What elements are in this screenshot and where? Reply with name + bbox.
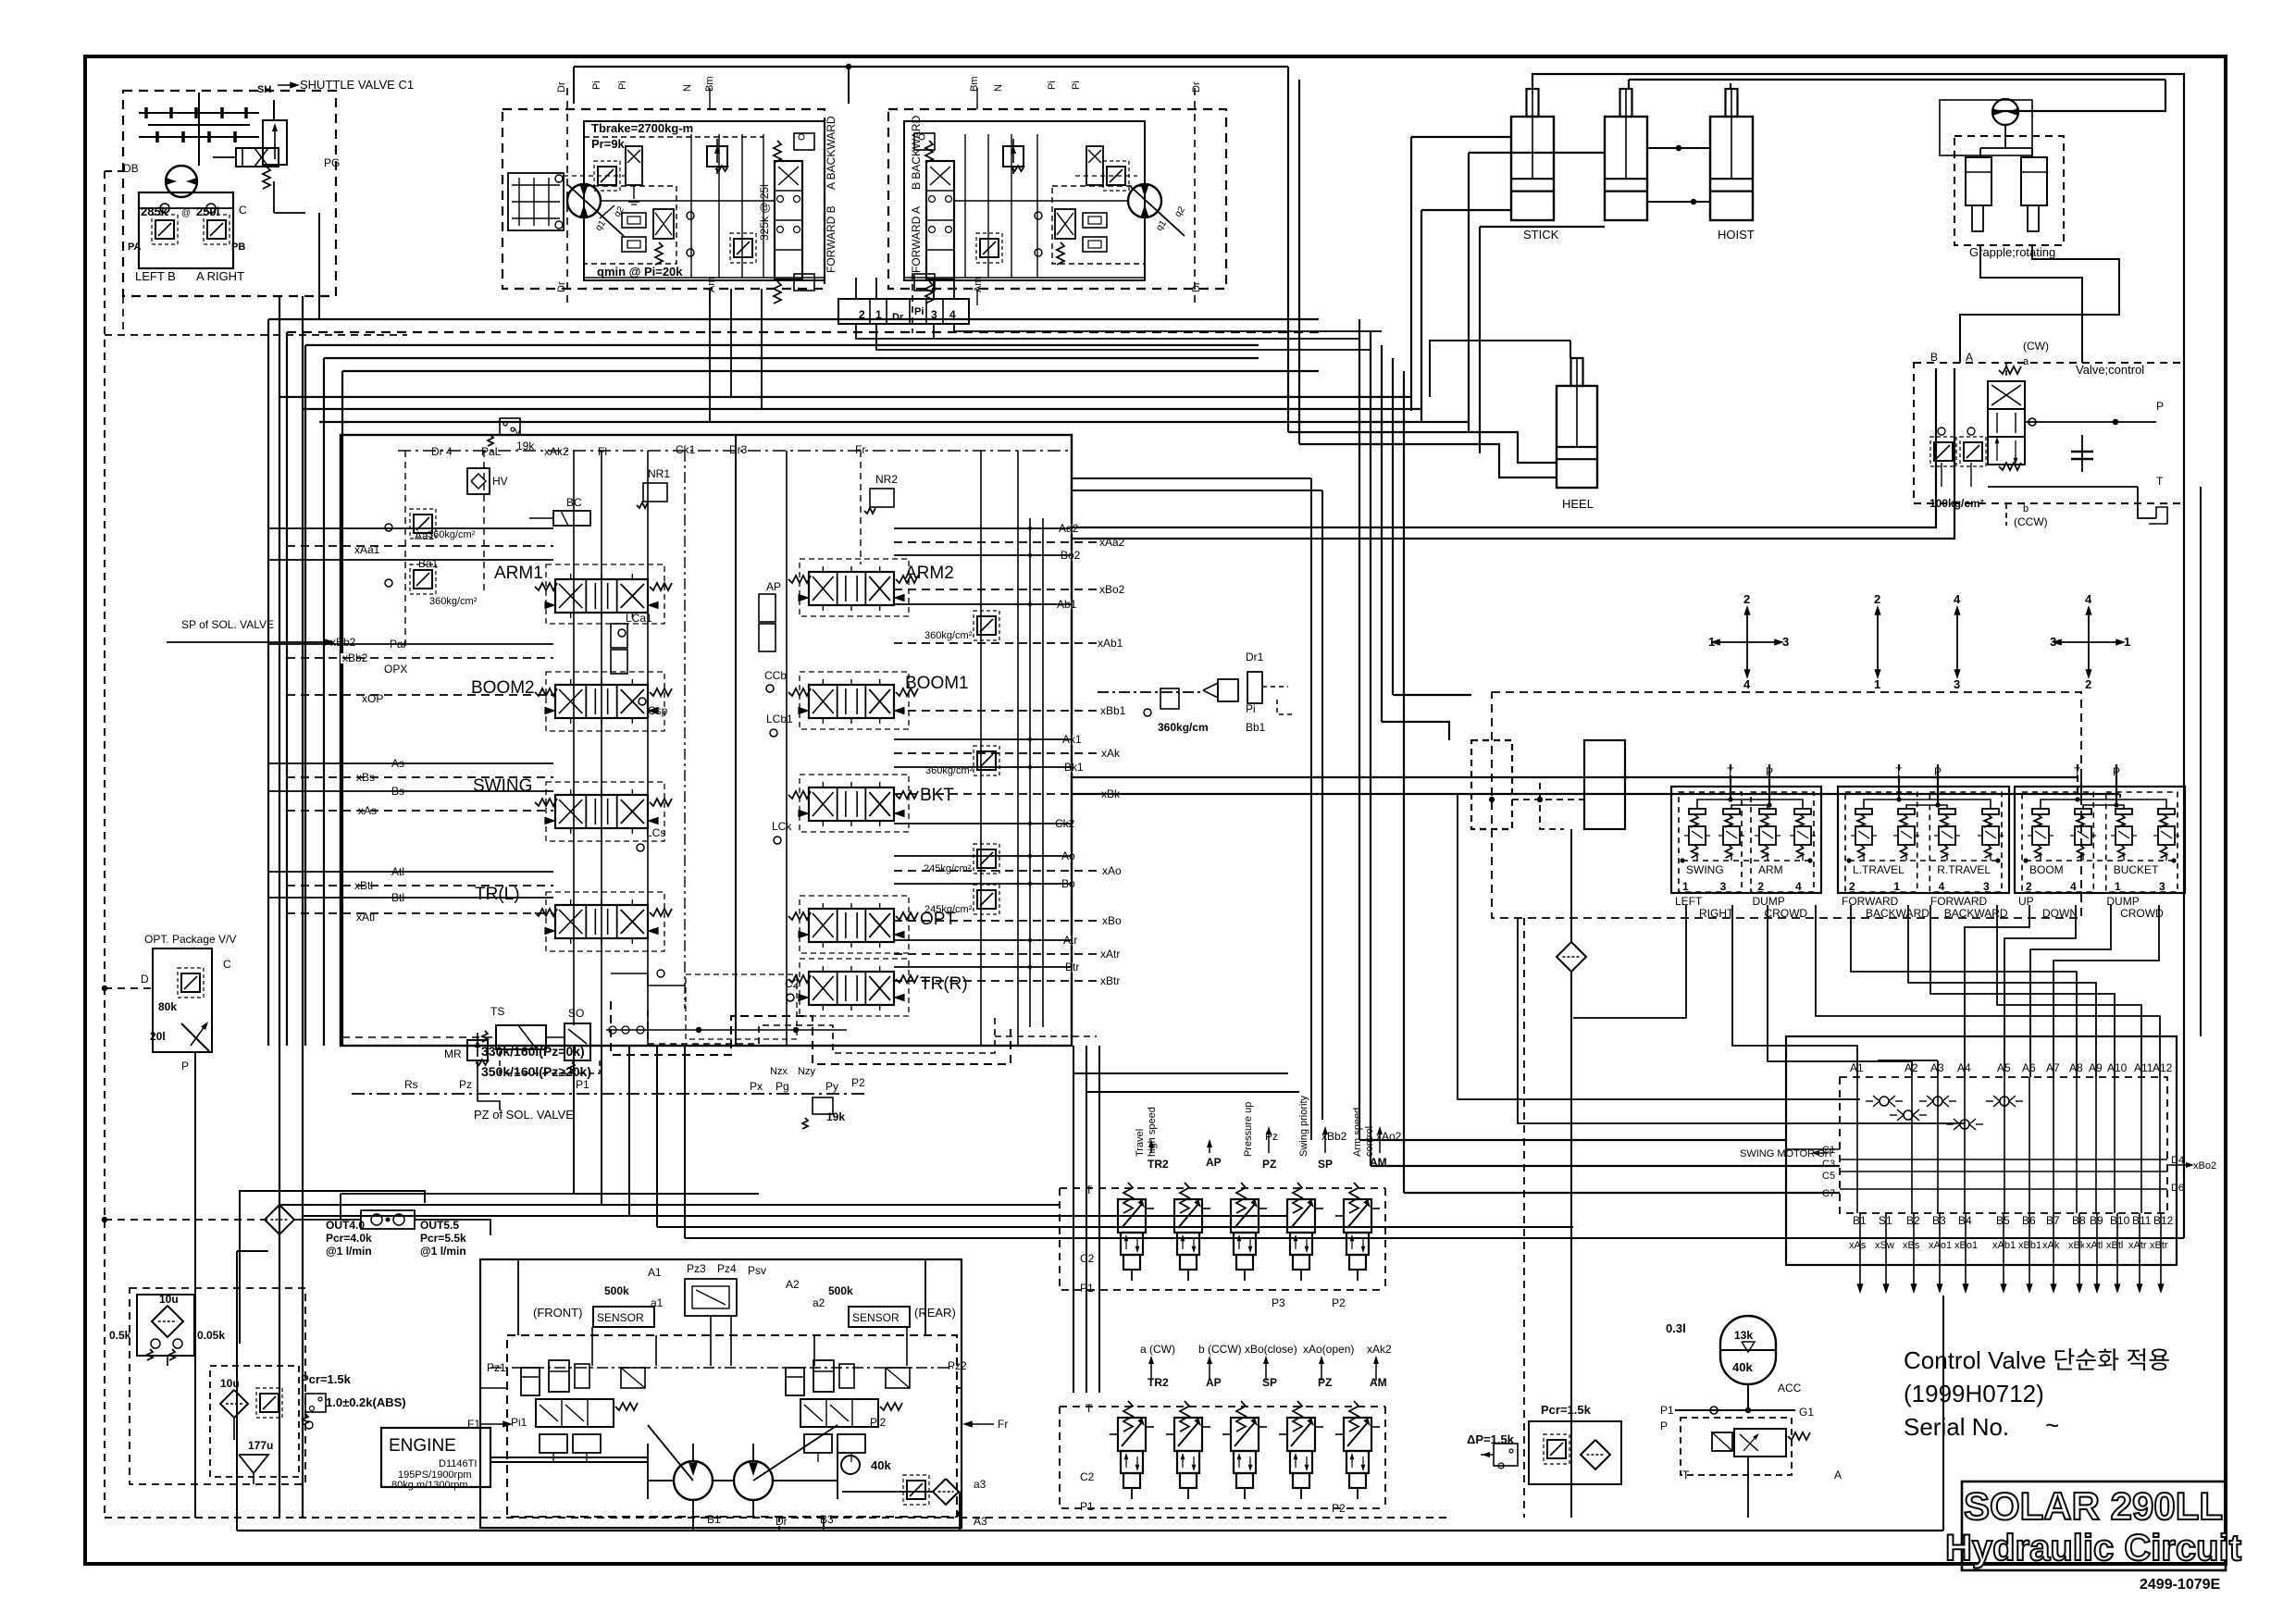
- svg-text:@: @: [181, 208, 191, 218]
- svg-text:500k: 500k: [604, 1284, 629, 1297]
- svg-text:b: b: [2023, 503, 2029, 514]
- svg-text:Pz2: Pz2: [948, 1359, 967, 1372]
- svg-text:(1999H0712): (1999H0712): [1904, 1380, 2044, 1407]
- svg-text:40k: 40k: [871, 1458, 891, 1472]
- svg-text:1: 1: [2124, 635, 2130, 649]
- svg-text:Am: Am: [973, 278, 984, 293]
- svg-text:b (CCW): b (CCW): [1198, 1343, 1242, 1356]
- svg-text:a: a: [2023, 356, 2029, 367]
- svg-text:4: 4: [1795, 880, 1802, 893]
- svg-text:TR(L): TR(L): [475, 885, 520, 904]
- svg-text:A2: A2: [1905, 1061, 1918, 1074]
- svg-text:Pcr=5.5k: Pcr=5.5k: [420, 1232, 466, 1245]
- svg-text:FORWARD B: FORWARD B: [825, 205, 838, 273]
- svg-text:R.TRAVEL: R.TRAVEL: [1937, 863, 1991, 876]
- svg-text:DOWN: DOWN: [2042, 907, 2078, 920]
- svg-text:xAk: xAk: [2042, 1240, 2060, 1251]
- svg-text:SP of SOL. VALVE: SP of SOL. VALVE: [181, 618, 274, 631]
- svg-text:Pi: Pi: [914, 306, 924, 317]
- svg-text:1: 1: [2115, 880, 2121, 893]
- svg-text:SENSOR: SENSOR: [597, 1311, 644, 1324]
- svg-text:325k @ 25l: 325k @ 25l: [758, 184, 771, 241]
- svg-text:3: 3: [1782, 635, 1789, 649]
- svg-text:Tbrake=2700kg-m: Tbrake=2700kg-m: [591, 121, 693, 135]
- svg-text:40k: 40k: [1732, 1360, 1753, 1374]
- svg-text:HOIST: HOIST: [1718, 228, 1755, 242]
- svg-text:360kg/cm²: 360kg/cm²: [429, 596, 478, 607]
- svg-text:(REAR): (REAR): [914, 1306, 956, 1320]
- svg-text:control: control: [1364, 1126, 1375, 1157]
- svg-text:(CCW): (CCW): [2014, 515, 2048, 528]
- svg-text:C3: C3: [1822, 1159, 1835, 1170]
- svg-text:xBtl: xBtl: [2106, 1240, 2123, 1251]
- svg-text:xAb1: xAb1: [1098, 637, 1123, 650]
- svg-text:Grapple;rotating: Grapple;rotating: [1969, 245, 2055, 259]
- svg-text:A9: A9: [2089, 1061, 2103, 1074]
- svg-text:AM: AM: [1370, 1156, 1387, 1169]
- svg-text:xAo(open): xAo(open): [1303, 1343, 1354, 1356]
- svg-text:3: 3: [2159, 880, 2165, 893]
- svg-text:3: 3: [2050, 635, 2056, 649]
- svg-text:P: P: [1660, 1419, 1668, 1432]
- svg-text:Hydraulic Circuit: Hydraulic Circuit: [1945, 1528, 2241, 1568]
- svg-text:P1: P1: [576, 1078, 589, 1091]
- svg-text:RIGHT: RIGHT: [1699, 907, 1734, 920]
- svg-text:N: N: [993, 84, 1004, 92]
- svg-text:100kg/cm²: 100kg/cm²: [1929, 497, 1984, 510]
- svg-text:T: T: [2156, 475, 2164, 488]
- svg-text:CROWD: CROWD: [2120, 907, 2164, 920]
- svg-text:360kg/cm: 360kg/cm: [1158, 721, 1209, 734]
- svg-text:BKT: BKT: [920, 786, 954, 805]
- svg-text:Py: Py: [825, 1080, 838, 1093]
- svg-text:PZ: PZ: [1318, 1376, 1332, 1389]
- svg-text:xBtr: xBtr: [2150, 1240, 2168, 1251]
- svg-text:3: 3: [1720, 880, 1727, 893]
- svg-text:Nzy: Nzy: [798, 1066, 815, 1077]
- svg-text:STICK: STICK: [1523, 228, 1559, 242]
- svg-text:xAtr: xAtr: [2128, 1240, 2147, 1251]
- svg-text:BACKWARD: BACKWARD: [1866, 907, 1929, 920]
- svg-text:FORWARD: FORWARD: [1930, 895, 1988, 908]
- svg-text:LEFT B: LEFT B: [135, 269, 176, 283]
- svg-text:2: 2: [1743, 592, 1750, 606]
- svg-text:TR2: TR2: [1148, 1158, 1169, 1171]
- svg-text:C: C: [223, 958, 231, 971]
- svg-text:OUT4.0: OUT4.0: [326, 1219, 365, 1232]
- svg-text:Dr: Dr: [1191, 81, 1202, 93]
- svg-text:1: 1: [1893, 880, 1900, 893]
- svg-text:SH: SH: [257, 84, 271, 95]
- svg-text:xAs: xAs: [1849, 1240, 1867, 1251]
- svg-text:T: T: [1086, 1402, 1093, 1415]
- svg-text:Dr: Dr: [892, 312, 904, 323]
- svg-text:BOOM: BOOM: [2029, 863, 2064, 876]
- svg-text:P1: P1: [1080, 1500, 1094, 1513]
- svg-text:L.TRAVEL: L.TRAVEL: [1853, 863, 1905, 876]
- svg-text:1: 1: [1682, 880, 1689, 893]
- svg-text:xAo: xAo: [1102, 864, 1122, 877]
- svg-text:80kg.m/1300rpm: 80kg.m/1300rpm: [391, 1480, 468, 1491]
- svg-text:A10: A10: [2107, 1061, 2128, 1074]
- svg-text:Pi: Pi: [1246, 702, 1256, 715]
- svg-text:xAtl: xAtl: [2086, 1240, 2103, 1251]
- svg-text:PB: PB: [231, 242, 245, 253]
- svg-text:4: 4: [1939, 880, 1945, 893]
- svg-text:C1: C1: [1822, 1145, 1835, 1156]
- svg-text:MR: MR: [444, 1048, 462, 1060]
- svg-text:AM: AM: [1370, 1376, 1387, 1389]
- svg-text:A2: A2: [786, 1278, 800, 1291]
- svg-text:A12: A12: [2153, 1061, 2173, 1074]
- svg-text:A8: A8: [2069, 1061, 2083, 1074]
- svg-text:SWING: SWING: [1686, 863, 1724, 876]
- svg-text:A RIGHT: A RIGHT: [196, 269, 244, 283]
- svg-text:0.5k: 0.5k: [109, 1329, 131, 1342]
- svg-text:Swing priority: Swing priority: [1298, 1095, 1309, 1157]
- svg-text:LCb1: LCb1: [766, 713, 793, 725]
- svg-text:Dr1: Dr1: [1246, 651, 1264, 663]
- svg-text:A4: A4: [1957, 1061, 1971, 1074]
- svg-text:4: 4: [2070, 880, 2077, 893]
- svg-text:DUMP: DUMP: [1752, 895, 1784, 908]
- svg-text:Pg: Pg: [775, 1080, 789, 1093]
- svg-text:OPT: OPT: [920, 910, 956, 929]
- svg-text:C7: C7: [1822, 1188, 1835, 1199]
- svg-text:19k: 19k: [826, 1110, 845, 1123]
- svg-text:19k: 19k: [516, 440, 535, 452]
- svg-text:Pi: Pi: [1071, 81, 1082, 90]
- svg-text:BUCKET: BUCKET: [2114, 863, 2159, 876]
- svg-text:TR(R): TR(R): [920, 974, 968, 994]
- svg-text:OUT5.5: OUT5.5: [420, 1219, 459, 1232]
- svg-text:ENGINE: ENGINE: [389, 1436, 456, 1456]
- svg-text:SP: SP: [1262, 1376, 1277, 1389]
- svg-text:Pcr=4.0k: Pcr=4.0k: [326, 1232, 372, 1245]
- svg-text:D: D: [141, 973, 149, 986]
- svg-text:Fl: Fl: [598, 445, 607, 458]
- svg-text:HV: HV: [492, 475, 508, 488]
- svg-text:Valve;control: Valve;control: [2076, 363, 2144, 377]
- svg-text:qmin @ Pi=20k: qmin @ Pi=20k: [597, 265, 683, 279]
- svg-text:Pcr=1.5k: Pcr=1.5k: [301, 1372, 352, 1386]
- svg-text:B1: B1: [707, 1513, 721, 1526]
- svg-text:Pz: Pz: [459, 1078, 472, 1091]
- svg-text:OPX: OPX: [384, 663, 407, 676]
- svg-text:B11: B11: [2132, 1214, 2152, 1227]
- svg-text:C2: C2: [1080, 1470, 1095, 1483]
- svg-text:PZ: PZ: [1262, 1158, 1276, 1171]
- svg-text:A: A: [1966, 351, 1973, 364]
- svg-text:Ck1: Ck1: [676, 443, 696, 456]
- svg-text:1: 1: [1874, 677, 1880, 691]
- svg-text:B3: B3: [820, 1513, 834, 1526]
- svg-text:xBb2: xBb2: [330, 636, 356, 649]
- svg-text:SENSOR: SENSOR: [852, 1311, 900, 1324]
- svg-text:Dr: Dr: [775, 1515, 788, 1528]
- svg-text:Dr3: Dr3: [729, 443, 748, 456]
- svg-text:3: 3: [1983, 880, 1990, 893]
- svg-text:LCk: LCk: [772, 820, 792, 833]
- svg-text:B12: B12: [2153, 1214, 2174, 1227]
- svg-text:1: 1: [1708, 635, 1715, 649]
- svg-text:A: A: [1834, 1469, 1842, 1481]
- svg-text:PA: PA: [128, 242, 142, 253]
- svg-text:CROWD: CROWD: [1764, 907, 1807, 920]
- svg-text:A3: A3: [974, 1515, 987, 1528]
- svg-text:P3: P3: [1272, 1296, 1285, 1309]
- svg-text:Pi1: Pi1: [511, 1416, 527, 1429]
- svg-text:360kg/cm²: 360kg/cm²: [924, 630, 973, 641]
- svg-text:Pi: Pi: [591, 81, 602, 90]
- svg-text:177u: 177u: [248, 1439, 273, 1452]
- svg-text:Arm speed: Arm speed: [1352, 1108, 1363, 1157]
- svg-text:SOLAR 290LL: SOLAR 290LL: [1964, 1484, 2223, 1528]
- svg-text:Dr: Dr: [556, 281, 567, 292]
- svg-text:NR1: NR1: [648, 467, 670, 480]
- svg-text:A5: A5: [1997, 1061, 2011, 1074]
- svg-text:Rs: Rs: [404, 1078, 418, 1091]
- svg-text:xSw: xSw: [1875, 1240, 1894, 1251]
- svg-text:LCs: LCs: [646, 826, 665, 839]
- svg-text:Px: Px: [750, 1080, 763, 1093]
- svg-text:Am: Am: [706, 278, 717, 293]
- svg-text:10u: 10u: [159, 1293, 179, 1306]
- svg-text:TS: TS: [490, 1005, 504, 1018]
- svg-text:AP: AP: [1206, 1156, 1222, 1169]
- svg-text:LEFT: LEFT: [1675, 895, 1703, 908]
- svg-text:3: 3: [1954, 677, 1960, 691]
- svg-text:BOOM1: BOOM1: [905, 674, 969, 693]
- svg-text:SO: SO: [568, 1007, 584, 1020]
- svg-text:245kg/cm²: 245kg/cm²: [924, 863, 972, 874]
- svg-text:BACKWARD: BACKWARD: [1944, 907, 2008, 920]
- svg-text:B10: B10: [2110, 1214, 2130, 1227]
- svg-text:xBb1: xBb1: [1100, 704, 1126, 717]
- svg-text:360kg/cm²: 360kg/cm²: [428, 529, 476, 540]
- svg-text:500k: 500k: [828, 1284, 853, 1297]
- svg-text:2499-1079E: 2499-1079E: [2140, 1577, 2221, 1593]
- svg-text:Nzx: Nzx: [770, 1066, 788, 1077]
- svg-text:Travel: Travel: [1135, 1129, 1146, 1157]
- svg-text:a (CW): a (CW): [1140, 1343, 1175, 1356]
- svg-text:@1 l/min: @1 l/min: [326, 1245, 372, 1258]
- svg-text:Pr=9k: Pr=9k: [591, 137, 626, 151]
- svg-text:C: C: [239, 204, 247, 217]
- svg-text:V: V: [515, 428, 521, 438]
- svg-text:1.0±0.2k(ABS): 1.0±0.2k(ABS): [326, 1395, 406, 1409]
- svg-text:AP: AP: [766, 580, 781, 593]
- svg-text:D4: D4: [2171, 1155, 2184, 1166]
- svg-text:Bm: Bm: [969, 77, 980, 93]
- svg-text:OPT. Package V/V: OPT. Package V/V: [144, 933, 236, 946]
- svg-text:250l: 250l: [196, 205, 219, 218]
- svg-text:xAk: xAk: [1101, 747, 1121, 760]
- svg-text:~: ~: [2045, 1411, 2059, 1439]
- svg-text:B: B: [1930, 351, 1938, 364]
- svg-text:high speed: high speed: [1147, 1107, 1158, 1157]
- svg-text:Pressure up: Pressure up: [1243, 1102, 1254, 1157]
- svg-text:Dr: Dr: [556, 81, 567, 93]
- svg-text:AP: AP: [1206, 1376, 1222, 1389]
- svg-text:xAk2: xAk2: [1367, 1343, 1392, 1356]
- svg-text:PZ of SOL. VALVE: PZ of SOL. VALVE: [474, 1108, 574, 1122]
- svg-text:330k/160l(Pz=0k): 330k/160l(Pz=0k): [481, 1044, 585, 1059]
- svg-text:A6: A6: [2022, 1061, 2036, 1074]
- svg-text:Pi: Pi: [617, 81, 628, 90]
- svg-text:Pcr=1.5k: Pcr=1.5k: [1541, 1403, 1592, 1417]
- svg-text:P2: P2: [1332, 1296, 1346, 1309]
- svg-text:@1 l/min: @1 l/min: [420, 1245, 466, 1258]
- svg-text:2: 2: [1757, 880, 1764, 893]
- svg-text:4: 4: [1743, 677, 1751, 691]
- svg-text:(CW): (CW): [2023, 340, 2049, 353]
- svg-text:Pi: Pi: [1047, 81, 1058, 90]
- svg-text:T: T: [1682, 1469, 1690, 1481]
- svg-text:A1: A1: [1850, 1061, 1864, 1074]
- svg-text:xBo2: xBo2: [1099, 583, 1125, 596]
- svg-text:P2: P2: [851, 1076, 865, 1089]
- svg-text:A3: A3: [1930, 1061, 1944, 1074]
- svg-text:SHUTTLE VALVE C1: SHUTTLE VALVE C1: [300, 78, 414, 92]
- svg-text:80k: 80k: [158, 1000, 177, 1013]
- svg-text:PG: PG: [324, 156, 340, 169]
- svg-text:G1: G1: [1799, 1406, 1814, 1419]
- svg-text:HEEL: HEEL: [1562, 497, 1594, 511]
- svg-text:A1: A1: [648, 1266, 662, 1279]
- svg-text:2: 2: [2026, 880, 2032, 893]
- svg-text:2: 2: [1849, 880, 1855, 893]
- svg-text:2: 2: [1874, 592, 1880, 606]
- svg-text:DB: DB: [123, 162, 139, 175]
- svg-text:xBo(close): xBo(close): [1245, 1343, 1297, 1356]
- svg-text:Dr 4: Dr 4: [431, 445, 453, 458]
- svg-text:CCb: CCb: [764, 669, 787, 682]
- svg-text:N: N: [682, 84, 693, 92]
- svg-text:4: 4: [2085, 592, 2092, 606]
- svg-text:350k/160l(Pz≥20k): 350k/160l(Pz≥20k): [481, 1064, 591, 1079]
- svg-text:Dr: Dr: [1191, 281, 1202, 292]
- svg-text:20l: 20l: [150, 1030, 166, 1043]
- svg-text:13k: 13k: [1734, 1329, 1753, 1342]
- svg-text:SWING: SWING: [473, 776, 532, 796]
- svg-text:ARM1: ARM1: [494, 564, 543, 583]
- svg-text:xAtr: xAtr: [1100, 948, 1120, 961]
- svg-text:ACC: ACC: [1778, 1382, 1802, 1395]
- svg-text:xBtr: xBtr: [1100, 974, 1120, 987]
- svg-text:xBk: xBk: [2068, 1240, 2086, 1251]
- svg-text:A BACKWARD: A BACKWARD: [825, 116, 838, 190]
- svg-text:D1146TI: D1146TI: [439, 1458, 477, 1469]
- svg-text:285k: 285k: [141, 205, 168, 218]
- svg-text:a3: a3: [974, 1478, 986, 1491]
- svg-text:0.3l: 0.3l: [1666, 1321, 1686, 1335]
- svg-text:0.05k: 0.05k: [197, 1329, 225, 1342]
- svg-text:(FRONT): (FRONT): [533, 1306, 582, 1320]
- svg-text:D6: D6: [2171, 1183, 2184, 1194]
- svg-text:P2: P2: [1332, 1502, 1346, 1515]
- svg-text:NR2: NR2: [875, 473, 898, 486]
- svg-text:a1: a1: [651, 1296, 664, 1309]
- svg-text:Bb1: Bb1: [1246, 721, 1266, 734]
- svg-text:xBs: xBs: [1903, 1240, 1920, 1251]
- svg-text:ARM: ARM: [1758, 863, 1783, 876]
- svg-text:Fr: Fr: [998, 1418, 1008, 1431]
- svg-text:FORWARD A: FORWARD A: [910, 206, 923, 273]
- svg-text:Psv: Psv: [748, 1264, 766, 1277]
- svg-text:Pz3: Pz3: [687, 1262, 706, 1275]
- svg-text:a2: a2: [813, 1296, 825, 1309]
- svg-text:SP: SP: [1318, 1158, 1333, 1171]
- svg-text:C5: C5: [1822, 1171, 1835, 1182]
- svg-text:P: P: [181, 1060, 189, 1072]
- svg-text:A11: A11: [2134, 1061, 2153, 1074]
- svg-text:4: 4: [1954, 592, 1961, 606]
- svg-text:B BACKWARD: B BACKWARD: [910, 115, 923, 190]
- svg-text:xBo: xBo: [1102, 914, 1122, 927]
- svg-text:Serial No.: Serial No.: [1904, 1413, 2009, 1441]
- svg-text:A7: A7: [2046, 1061, 2060, 1074]
- svg-text:xBo2: xBo2: [2193, 1160, 2216, 1172]
- svg-text:xAk2: xAk2: [544, 445, 569, 458]
- svg-text:UP: UP: [2018, 895, 2034, 908]
- svg-text:Pz4: Pz4: [717, 1262, 737, 1275]
- svg-text:P1: P1: [1660, 1404, 1674, 1417]
- svg-text:P: P: [2156, 400, 2164, 413]
- svg-text:2: 2: [2085, 677, 2091, 691]
